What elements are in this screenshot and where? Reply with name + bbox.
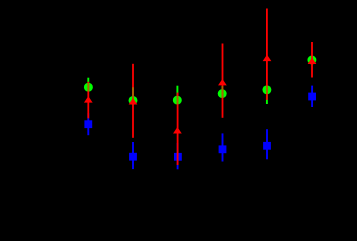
green series (circles with error bars, visible extents) bbox=[84, 56, 316, 105]
blend strips where red error bars cross green markers bbox=[88, 83, 267, 105]
blue series (squares with error bars) bbox=[84, 86, 316, 170]
red triangle markers on top bbox=[84, 55, 316, 134]
red series (triangles with error bars), drawn on top bbox=[88, 9, 312, 166]
